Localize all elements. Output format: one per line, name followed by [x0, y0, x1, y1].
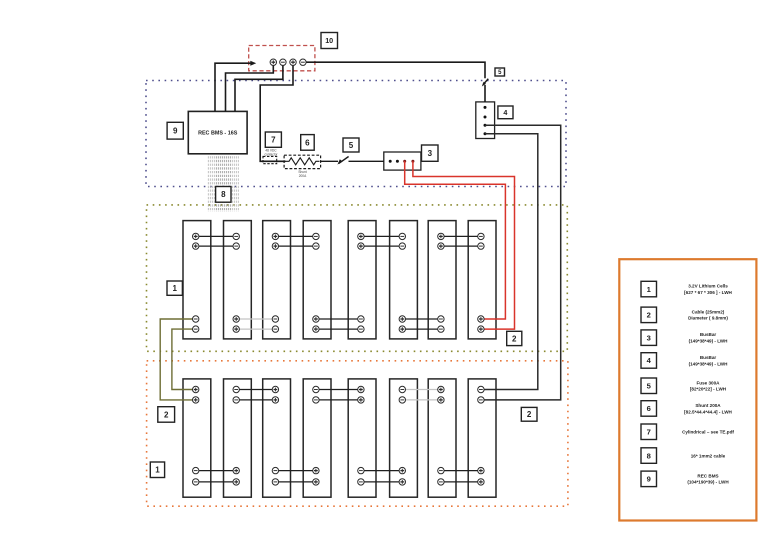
legend item 5 — [641, 378, 727, 394]
shunt R1 value text — [298, 170, 307, 178]
svg-text:REC BMS - 16S: REC BMS - 16S — [198, 130, 238, 136]
terminal T3 + (connector J1) — [290, 59, 296, 65]
svg-text:Shunt 200A: Shunt 200A — [695, 403, 721, 408]
callout 1 (row1 cells) — [167, 281, 182, 295]
svg-text:200A: 200A — [299, 174, 307, 178]
battery cell B7 (row 1, item 1) — [428, 221, 456, 339]
battery cell B13 (row 2, item 1) — [348, 379, 376, 497]
svg-text:[82.5*44.4*44.4] - LWH: [82.5*44.4*44.4] - LWH — [684, 409, 732, 414]
terminals of cell B1 (row1) — [193, 233, 199, 332]
busbar BB3 (item 3) — [384, 152, 421, 170]
battery cell B14 (row 2, item 1) — [390, 379, 418, 497]
wire olive: B1- (row1) to B9+ lower (row2), item 2 — [160, 319, 196, 400]
wire pair B2+ to B3- (row1 bottom, grey) — [236, 319, 275, 329]
terminals of cell B13 (row2) — [358, 386, 364, 485]
battery cell B3 (row 1, item 1) — [263, 221, 291, 339]
wire pair B1+ to B2- (row1 top) — [196, 236, 237, 246]
terminals of cell B4 (row1) — [313, 233, 319, 332]
svg-text:16* 1mm2 cable: 16* 1mm2 cable — [691, 453, 726, 458]
svg-text:BusBar: BusBar — [700, 355, 717, 360]
wire: terminal T4- right and down to fuse F2 — [306, 62, 485, 78]
svg-text:(149*38*49) - LWH: (149*38*49) - LWH — [689, 361, 728, 366]
wire: contactor K1 to shunt R1 — [277, 160, 286, 162]
battery cell B11 (row 2, item 1) — [263, 379, 291, 497]
battery cell B4 (row 1, item 1) — [303, 221, 331, 339]
svg-text:REC BMS: REC BMS — [697, 473, 718, 478]
callout 6 (shunt) — [301, 135, 315, 151]
svg-text:[82*20*22] - LWH: [82*20*22] - LWH — [690, 387, 727, 392]
svg-text:9: 9 — [173, 127, 178, 136]
busbar BB4 (item 4) — [476, 102, 495, 139]
fuse F1 (item 5, slash symbol) — [337, 157, 348, 165]
svg-text:3.2V Lithium Cells: 3.2V Lithium Cells — [688, 284, 728, 289]
terminal T2 - (connector J1) — [280, 59, 286, 65]
terminal T1 + (connector J1) — [270, 59, 276, 65]
wire black: B16- lower (row2) to busbar BB4 dot3, item 2 — [481, 125, 561, 400]
wire pair B6+ to B7- (row1 bottom) — [402, 319, 441, 329]
balance ribbon cable (16x 1mm2 wires, item 8) — [208, 156, 238, 212]
wire red: busbar BB3 dot3 to B8+ (row1), item 2 — [405, 161, 506, 319]
svg-text:10: 10 — [325, 36, 333, 45]
wire: fuse F2 down to busbar BB4 — [484, 85, 486, 102]
contactor K1 (item 7, dashed) — [263, 156, 277, 163]
legend item 2 — [641, 307, 728, 323]
legend item 6 — [641, 401, 733, 417]
svg-text:Fuse 300A: Fuse 300A — [697, 380, 721, 385]
svg-text:2: 2 — [647, 311, 651, 320]
svg-text:7: 7 — [271, 136, 276, 145]
wire: BMS pin1 up to connector J1 (arrow) — [215, 63, 251, 111]
callout 9 (REC BMS) — [167, 122, 183, 139]
callout 4 (busbar BB4) — [498, 106, 513, 119]
battery cell B8 (row 1, item 1) — [468, 221, 496, 339]
svg-text:contactor: contactor — [264, 153, 278, 157]
svg-text:9: 9 — [647, 475, 651, 484]
wire pair B5+ to B6- (row1 top) — [361, 236, 402, 246]
wire pair B7+ to B8- (row1 top) — [441, 236, 481, 246]
section border: battery pack row 1 (olive dotted) — [147, 205, 568, 351]
svg-text:8: 8 — [221, 190, 226, 199]
svg-text:6: 6 — [647, 404, 651, 413]
callout 2 (red cables row1) — [507, 331, 522, 345]
wire pair B12- to B13+ (row2 top) — [316, 390, 361, 400]
connector J1 - external charger/load terminals (red dashed box) — [249, 46, 315, 71]
callout 5 (fuse F1) — [343, 138, 359, 152]
callout 8 (ribbon cable) — [216, 187, 231, 203]
wire pair B14- to B15+ (row2 top, grey) — [402, 390, 441, 400]
svg-text:1: 1 — [155, 466, 160, 475]
battery cell B9 (row 2, item 1) — [183, 379, 211, 497]
terminals of cell B11 (row2) — [272, 386, 278, 485]
svg-text:5: 5 — [349, 141, 354, 150]
wire pair B3+ to B4- (row1 top) — [275, 236, 316, 246]
wire pair B13- to B14+ (row2 bottom) — [361, 471, 402, 482]
terminals of cell B3 (row1) — [272, 233, 278, 332]
battery cell B5 (row 1, item 1) — [348, 221, 376, 339]
REC BMS U1 (item 9) — [188, 111, 247, 153]
callout 3 (busbar BB3) — [422, 145, 439, 161]
battery cell B6 (row 1, item 1) — [390, 221, 418, 339]
wire red: busbar BB3 dot4 to B8+ lower (row1), item 2 — [413, 161, 515, 329]
arrowhead into connector J1 — [250, 61, 256, 66]
svg-text:(104*190*39) - LWH: (104*190*39) - LWH — [687, 480, 729, 485]
callout 2 (black cables row2) — [521, 407, 537, 421]
wire: terminal T2- down to BMS pin3 — [235, 65, 283, 111]
terminals of cell B7 (row1) — [438, 233, 444, 332]
wire: terminal T3+ down to contactor K1 — [260, 65, 293, 161]
battery cell B15 (row 2, item 1) — [428, 379, 456, 497]
contactor K1 label text — [264, 149, 278, 157]
wire olive: B1- lower (row1) to B9+ upper (row2), item 2 — [172, 329, 196, 389]
svg-text:BusBar: BusBar — [700, 332, 717, 337]
terminals of cell B12 (row2) — [313, 386, 319, 485]
svg-text:Cylindrical – see TE.pdf: Cylindrical – see TE.pdf — [682, 430, 734, 435]
wire pair B15- to B16+ (row2 bottom) — [441, 471, 481, 482]
terminals of cell B6 (row1) — [399, 233, 405, 332]
terminals of cell B2 (row1) — [233, 233, 239, 332]
wire pair B9- to B10+ (row2 bottom) — [196, 471, 237, 482]
terminals of cell B10 (row2) — [233, 386, 239, 485]
wire: shunt R1 to fuse F1 — [321, 160, 338, 162]
svg-text:3: 3 — [428, 149, 433, 158]
battery cell B10 (row 2, item 1) — [224, 379, 252, 497]
svg-text:8: 8 — [647, 451, 651, 460]
shunt R1 (item 6, resistor in dashed box) — [284, 155, 321, 168]
callout 5 (fuse F2) — [495, 68, 505, 76]
callout 1 (row2 cells) — [150, 462, 164, 478]
svg-text:2: 2 — [527, 410, 532, 419]
fuse F2 (item 5, slash symbol) — [482, 79, 489, 87]
wire: fuse F1 to busbar BB3 — [349, 160, 384, 162]
section border: battery pack row 2 (orange dotted) — [147, 361, 568, 506]
wire pair B11- to B12+ (row2 bottom) — [275, 471, 316, 482]
wire black: B16- upper (row2) to busbar BB4 dot4, item 2 — [481, 134, 538, 390]
callout 7 (contactor) — [265, 132, 281, 147]
battery cell B12 (row 2, item 1) — [303, 379, 331, 497]
wire pair B10- to B11+ (row2 top) — [236, 390, 275, 400]
terminals of cell B14 (row2) — [399, 386, 405, 485]
terminals of cell B8 (row1) — [478, 233, 484, 332]
legend item 4 — [641, 353, 728, 369]
legend box (orange border) — [619, 259, 756, 520]
wire pair B4+ to B5- (row1 bottom) — [316, 319, 361, 329]
terminals of cell B16 (row2) — [478, 386, 484, 485]
battery cell B2 (row 1, item 1) — [224, 221, 252, 339]
svg-text:3: 3 — [647, 333, 651, 342]
legend item 8 — [641, 448, 726, 464]
svg-text:4: 4 — [503, 108, 507, 117]
terminals of cell B9 (row2) — [193, 386, 199, 485]
svg-text:7: 7 — [647, 428, 651, 437]
terminals of cell B15 (row2) — [438, 386, 444, 485]
terminals of cell B5 (row1) — [358, 233, 364, 332]
section border: BMS area (blue dotted) — [146, 81, 566, 187]
legend item 7 — [641, 424, 734, 440]
svg-text:(149*38*49) - LWH: (149*38*49) - LWH — [689, 339, 728, 344]
svg-text:2: 2 — [164, 410, 169, 419]
battery cell B16 (row 2, item 1) — [468, 379, 496, 497]
legend item 3 — [641, 330, 728, 346]
terminal T4 - (connector J1) — [300, 59, 306, 65]
svg-text:1: 1 — [172, 284, 177, 293]
battery cell B1 (row 1, item 1) — [183, 221, 211, 339]
svg-text:2: 2 — [512, 334, 517, 343]
svg-text:Diameter ( 9.8mm): Diameter ( 9.8mm) — [688, 316, 728, 321]
svg-text:Cable (25mm2): Cable (25mm2) — [692, 309, 725, 314]
callout 2 (olive cables row2) — [158, 407, 175, 423]
wire: terminal T1+ down to BMS pin2 — [226, 65, 274, 111]
svg-text:[627 * 67 * 306 ] - LWH: [627 * 67 * 306 ] - LWH — [684, 290, 732, 295]
callout 10 (connector J1) — [321, 33, 338, 49]
legend item 9 — [641, 471, 729, 487]
svg-text:6: 6 — [305, 138, 310, 147]
legend item 1 — [641, 281, 733, 297]
